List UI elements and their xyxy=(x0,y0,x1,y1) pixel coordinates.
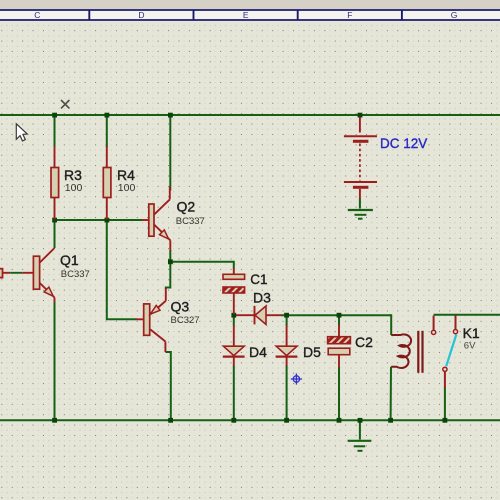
wire C2 bottom to ground rail xyxy=(338,367,340,420)
relay switch lever xyxy=(446,335,456,367)
ruler tick E/F xyxy=(297,10,299,20)
transistor Q2 xyxy=(142,187,170,251)
ruler bottom line xyxy=(0,19,500,21)
node marker X xyxy=(61,100,69,108)
wire D4 bottom to ground rail xyxy=(233,366,235,421)
svg-text:D4: D4 xyxy=(249,344,267,360)
svg-text:BC327: BC327 xyxy=(171,315,200,326)
svg-text:D3: D3 xyxy=(253,290,271,306)
battery BAT1 DC 12V xyxy=(344,117,377,199)
junction C1/D4 node xyxy=(231,313,236,318)
svg-text:R4: R4 xyxy=(117,167,135,183)
junction ground rail / relay switch xyxy=(443,418,448,423)
wire C1 bottom to D4 node xyxy=(233,314,235,326)
relay contact NO stub xyxy=(453,316,457,334)
relay contact NC stub xyxy=(432,316,436,335)
ruler top line xyxy=(0,9,500,11)
capacitor C2 xyxy=(328,325,351,368)
svg-text:F: F xyxy=(347,10,352,20)
relay coil K1 xyxy=(391,334,411,368)
junction ground rail / D4 xyxy=(231,418,236,423)
diode D4 xyxy=(223,325,245,366)
wire Q1 emitter to ground rail xyxy=(54,302,56,421)
ground symbol bottom xyxy=(348,441,372,451)
wire top supply rail xyxy=(0,114,500,116)
wire relay coil feed corner xyxy=(390,315,392,335)
junction ground rail / D5 xyxy=(284,418,289,423)
svg-text:Q1: Q1 xyxy=(60,252,79,268)
wire Q1 collector drop xyxy=(54,220,56,248)
svg-text:BC337: BC337 xyxy=(61,269,90,280)
svg-text:C2: C2 xyxy=(355,334,373,350)
junction mid rail / R3 xyxy=(52,218,57,223)
wire relay contact rail right xyxy=(434,314,500,316)
svg-text:G: G xyxy=(451,10,458,20)
node origin crosshair xyxy=(291,373,302,384)
svg-text:C: C xyxy=(34,10,40,20)
svg-text:C1: C1 xyxy=(250,272,267,287)
junction D5 node xyxy=(284,313,289,318)
wire relay switch pole to ground rail xyxy=(444,387,446,420)
wire R4 junction down to Q3 base xyxy=(107,220,137,319)
relay core bars xyxy=(418,331,422,373)
junction ground rail / ground symbol xyxy=(358,418,363,423)
junction mid rail / R4 xyxy=(105,218,110,223)
svg-text:R3: R3 xyxy=(64,167,82,183)
svg-text:Q2: Q2 xyxy=(177,199,196,215)
wire Q2 collector column xyxy=(169,115,171,191)
wire mid rail R3/R4 bottoms to Q2 base xyxy=(55,219,143,221)
junction Q2 emitter node xyxy=(168,259,173,264)
resistor R3 xyxy=(51,146,59,220)
diode D5 xyxy=(276,325,298,366)
ruler tick C/D xyxy=(88,10,90,20)
transistor Q1 xyxy=(0,248,55,303)
wire D5 bottom to ground rail xyxy=(286,366,288,421)
wire D4 node to D3 anode rail xyxy=(281,314,391,316)
wire C2 drop xyxy=(338,315,340,325)
svg-text:D: D xyxy=(138,10,144,20)
svg-text:Q3: Q3 xyxy=(171,299,190,315)
ruler bar xyxy=(0,0,500,21)
svg-text:100: 100 xyxy=(65,182,83,194)
svg-text:6V: 6V xyxy=(464,341,476,352)
wire D5 drop xyxy=(286,315,288,325)
junction top rail / R3 xyxy=(52,113,57,118)
window top strip xyxy=(0,0,500,9)
ruler tick F/G xyxy=(401,10,403,20)
junction C2 node xyxy=(337,313,342,318)
transistor Q3 xyxy=(136,288,166,352)
svg-text:DC 12V: DC 12V xyxy=(380,136,427,151)
wire bottom ground rail xyxy=(0,419,500,421)
wire Q2 emitter node to C1 xyxy=(170,250,234,269)
capacitor C1 xyxy=(223,268,245,314)
junction ground rail / Q3 xyxy=(168,418,173,423)
mouse cursor xyxy=(16,124,27,141)
wire battery ground stub xyxy=(359,198,361,209)
diode D3 xyxy=(236,306,282,325)
wire R4 top column xyxy=(106,115,108,147)
wire R3 top column xyxy=(54,115,56,147)
junction top rail / R4 xyxy=(105,113,110,118)
ruler band background xyxy=(0,9,500,21)
svg-text:BC337: BC337 xyxy=(176,216,205,227)
wire Q2 emitter node down to Q3 emitter jog xyxy=(166,262,171,289)
svg-text:100: 100 xyxy=(118,182,136,194)
junction top rail / battery xyxy=(358,113,363,118)
relay pole contact xyxy=(443,367,447,387)
wire Q3 collector jog to ground rail xyxy=(165,352,170,420)
junction ground rail / C2 xyxy=(337,418,342,423)
svg-text:K1: K1 xyxy=(463,325,480,341)
junction ground rail / Q1 emitter xyxy=(52,418,57,423)
wire ground rail stub at x360 xyxy=(359,420,361,439)
svg-text:E: E xyxy=(243,10,249,20)
ruler tick D/E xyxy=(193,10,195,20)
junction ground rail / relay coil xyxy=(388,418,393,423)
wire relay coil bottom to ground rail xyxy=(390,367,392,421)
junction top rail / Q2 collector xyxy=(168,113,173,118)
svg-text:D5: D5 xyxy=(303,344,321,360)
ground under battery xyxy=(348,210,373,219)
resistor R4 xyxy=(103,146,111,220)
